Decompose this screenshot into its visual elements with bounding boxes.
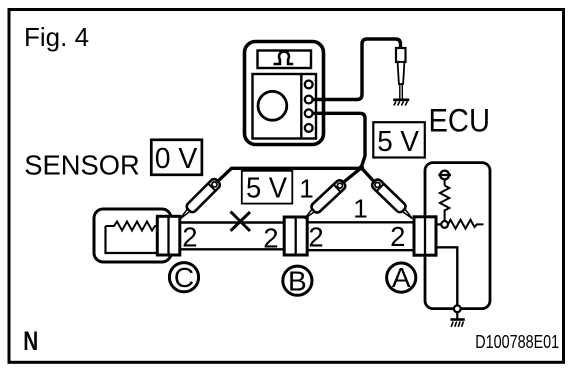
svg-text:5 V: 5 V (246, 172, 287, 204)
junction node (359, 165, 365, 171)
svg-text:0 V: 0 V (155, 143, 198, 175)
node N1 (441, 221, 448, 228)
connector B (284, 217, 307, 255)
svg-text:Fig. 4: Fig. 4 (24, 22, 89, 52)
svg-text:C: C (174, 262, 194, 293)
node B circled (283, 265, 312, 296)
label 5 V box center (242, 171, 292, 204)
multimeter M1 (245, 42, 324, 145)
wire multimeter terminal 2 to ground probe (313, 39, 401, 100)
svg-text:1: 1 (299, 174, 313, 204)
wire harness B-A top (307, 221, 414, 223)
sensor body (94, 209, 171, 262)
label 5 V box right (373, 122, 425, 157)
ground symbol ECU (451, 312, 465, 327)
power supply symbol (438, 171, 451, 186)
svg-text:N: N (23, 326, 38, 356)
break mark X (231, 212, 251, 232)
wire multimeter terminal 3 to junction (313, 113, 365, 167)
svg-text:ECU: ECU (429, 103, 491, 139)
svg-text:2: 2 (182, 222, 197, 253)
wire sensor loop (106, 226, 161, 253)
ECU box (425, 163, 490, 309)
wire probe B lead to junction (343, 168, 361, 183)
test probe P4 at connector A (370, 178, 415, 222)
wire harness C-B bottom (180, 248, 284, 250)
wire probe A lead to junction (361, 168, 374, 182)
test probe P1 vertical (396, 48, 406, 100)
test probe P3 at connector B (301, 179, 347, 223)
resistor R2 horizontal (448, 220, 484, 229)
svg-text:1: 1 (353, 194, 367, 224)
node A circled (387, 262, 416, 293)
wire harness B-A bottom (307, 249, 414, 251)
chassis ground for probe P1 (393, 100, 409, 106)
node N2 on ECU bottom (454, 305, 461, 312)
svg-text:D100788E01: D100788E01 (475, 332, 559, 352)
wire connector A to ECU ground (436, 247, 457, 305)
resistor R1 vertical (440, 186, 449, 222)
svg-text:A: A (392, 262, 411, 293)
svg-text:2: 2 (390, 221, 405, 252)
wire harness C-B top (180, 221, 284, 223)
svg-text:B: B (288, 265, 307, 296)
test probe P2 at connector C (177, 177, 222, 222)
wire connector A to node N1 (436, 223, 441, 225)
svg-text:2: 2 (308, 222, 323, 253)
connector A (414, 217, 436, 255)
svg-text:5 V: 5 V (377, 126, 419, 158)
resistor sensor element (106, 222, 159, 231)
label 0 V box (151, 140, 202, 175)
wire probe C lead to junction (218, 168, 361, 181)
svg-text:2: 2 (263, 222, 278, 253)
node C circled (169, 262, 198, 293)
connector C (157, 216, 180, 255)
svg-text:SENSOR: SENSOR (24, 149, 140, 180)
